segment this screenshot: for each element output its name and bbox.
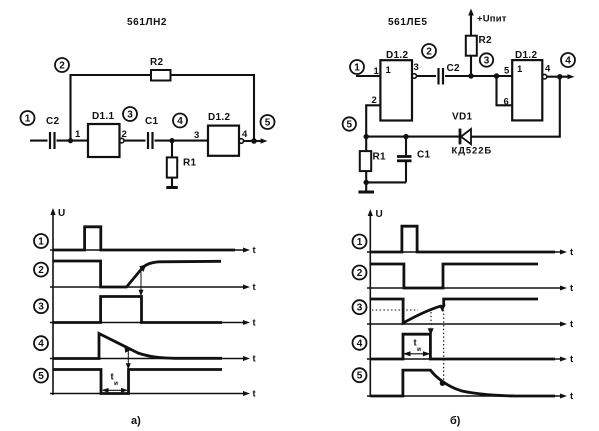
svg-text:D1.2: D1.2 [515, 50, 537, 61]
ground [166, 186, 178, 189]
nor-gate D1.2b [512, 50, 542, 120]
t axis 2 [367, 283, 574, 294]
tи measure arrows [102, 388, 129, 393]
wire R1 to ground [171, 178, 173, 188]
wire pin 2 down [366, 105, 380, 136]
svg-text:D1.2: D1.2 [386, 50, 408, 61]
wire R1 bottom [365, 171, 367, 182]
waveform 3 [53, 297, 222, 323]
svg-text:5: 5 [357, 371, 363, 382]
guide line wf2 to wf3 [139, 272, 144, 297]
U axis [368, 209, 383, 397]
svg-text:1: 1 [374, 66, 380, 77]
junction R2 bottom [468, 73, 473, 78]
svg-text:5: 5 [265, 118, 271, 129]
wire bottom C1 to ground node [366, 181, 406, 183]
junction C1 top [403, 134, 408, 139]
node 4 [561, 53, 575, 67]
svg-text:4: 4 [565, 56, 571, 67]
wire diode to junctions [366, 136, 460, 138]
t axis 3 [367, 319, 574, 330]
wire C2 to gate2 pin 5 [445, 75, 512, 77]
svg-text:4: 4 [242, 129, 248, 140]
svg-text:R1: R1 [373, 152, 387, 163]
U axis [50, 208, 65, 395]
svg-text:3: 3 [414, 62, 419, 73]
resistor R1 [360, 151, 386, 171]
t axis 1 [367, 247, 574, 258]
node 3 [34, 299, 48, 313]
inverter D1.2 [208, 112, 239, 156]
node 1 [350, 60, 364, 74]
svg-text:1: 1 [38, 237, 44, 248]
svg-text:и: и [417, 346, 421, 353]
svg-text:VD1: VD1 [452, 112, 472, 123]
waveform 1 [370, 226, 555, 252]
wire R2 down [470, 56, 472, 76]
node 2 [422, 44, 436, 58]
node 3 [123, 107, 137, 121]
threshold dotted line wf3 [372, 309, 418, 311]
junction ground node [364, 180, 369, 185]
dot on waveform 5 [440, 380, 446, 386]
inverter D1.1 [88, 111, 120, 157]
svg-text:4: 4 [38, 339, 44, 350]
t axis 5 [50, 389, 257, 400]
t axis 1 [50, 245, 257, 256]
inverter bubble D1.2b [542, 74, 547, 79]
wire input to D1.1 [30, 140, 88, 142]
t axis 5 [367, 391, 574, 402]
svg-text:4: 4 [545, 64, 551, 75]
svg-text:5: 5 [38, 371, 44, 382]
svg-text:C1: C1 [417, 150, 431, 161]
capacitor C2 [439, 63, 461, 85]
wire output arrow [547, 74, 575, 79]
node 5 [261, 115, 275, 129]
waveform 5 [53, 370, 222, 394]
waveform 2 [53, 261, 221, 287]
svg-text:5: 5 [504, 66, 510, 77]
wire D1.1 to D1.2 [124, 140, 208, 142]
svg-text:2: 2 [38, 265, 44, 276]
junction node 5 [364, 134, 369, 139]
diode VD1 [452, 112, 493, 157]
wire ground stem [365, 182, 367, 192]
LEFT-TIMING [34, 208, 257, 427]
node 1 [21, 111, 35, 125]
node 4 [34, 336, 48, 350]
inverter bubble D1.1 [119, 138, 124, 143]
svg-text:1: 1 [386, 65, 392, 76]
wire to R1 [171, 141, 173, 158]
svg-text:C1: C1 [145, 116, 159, 127]
svg-text:3: 3 [38, 302, 44, 313]
svg-text:+Uпит: +Uпит [477, 14, 507, 25]
waveform 4 [370, 334, 555, 359]
node 1 [353, 235, 367, 249]
svg-text:и: и [114, 380, 118, 387]
svg-text:3: 3 [127, 110, 133, 121]
junction pin5 branch [494, 73, 499, 78]
RIGHT-TIMING [353, 209, 575, 427]
resistor R2 [150, 57, 171, 81]
svg-text:5: 5 [347, 120, 353, 131]
t axis 4 [367, 354, 574, 365]
svg-text:U: U [58, 208, 66, 219]
wire R2 to output node [171, 75, 255, 141]
resistor R1 [167, 157, 197, 177]
node 4 [353, 336, 367, 350]
inverter bubble D1.2a [412, 74, 417, 79]
resistor R2 [466, 35, 492, 56]
svg-text:3: 3 [357, 303, 363, 314]
node 5 [343, 117, 356, 130]
wire branch to pin 6 [497, 76, 513, 105]
ground [358, 191, 374, 194]
svg-text:4: 4 [177, 116, 183, 127]
svg-text:R2: R2 [479, 35, 493, 46]
svg-text:D1.1: D1.1 [92, 111, 114, 122]
svg-text:3: 3 [484, 56, 490, 67]
svg-text:1: 1 [25, 114, 31, 125]
node 1 [34, 234, 48, 248]
svg-text:561ЛН2: 561ЛН2 [127, 17, 167, 28]
svg-text:R1: R1 [183, 158, 197, 169]
waveform 5 [370, 370, 555, 396]
tи measure arrows [403, 351, 430, 356]
label tи [414, 338, 422, 354]
RIGHT-CIRCUIT [343, 9, 575, 193]
wire C1 vertical [405, 137, 407, 183]
svg-text:6: 6 [504, 97, 509, 108]
junction R1 top [169, 138, 174, 143]
svg-text:2: 2 [59, 61, 65, 72]
marker arrow on waveform 4 [124, 346, 132, 353]
power +Uпит [468, 9, 507, 36]
wire input pin 1 [356, 75, 380, 77]
marker arrow on waveform 2 [139, 264, 146, 272]
junction output node [251, 138, 257, 144]
wire gate1 out to C2 [417, 75, 437, 77]
capacitor C1 [145, 116, 159, 149]
svg-text:C2: C2 [447, 63, 461, 74]
svg-text:2: 2 [426, 47, 432, 58]
node 2 [353, 266, 367, 280]
node 2 [55, 58, 69, 72]
capacitor C2 [46, 116, 60, 149]
svg-text:1: 1 [354, 63, 360, 74]
svg-text:D1.2: D1.2 [208, 112, 230, 123]
waveform 1 [53, 227, 235, 250]
node 2 [34, 263, 48, 277]
marker arrow wf4 fall [428, 328, 434, 335]
svg-text:4: 4 [357, 338, 363, 349]
node 3 [480, 53, 493, 66]
guide line wf4 to wf5 [126, 350, 131, 370]
svg-text:561ЛЕ5: 561ЛЕ5 [388, 17, 428, 28]
svg-text:C2: C2 [46, 116, 60, 127]
t axis 2 [50, 282, 257, 293]
LEFT-CIRCUIT [21, 17, 275, 188]
svg-text:1: 1 [517, 64, 523, 75]
svg-text:1: 1 [357, 237, 363, 248]
wire output down to diode [471, 77, 560, 137]
svg-text:3: 3 [194, 130, 199, 141]
svg-text:2: 2 [357, 268, 363, 279]
inverter bubble D1.2 [239, 139, 244, 144]
svg-text:а): а) [131, 415, 141, 427]
wire output arrow [244, 138, 268, 143]
wire to R1 [365, 137, 367, 152]
capacitor C1 [397, 150, 431, 161]
svg-text:U: U [376, 209, 384, 220]
node 4 [173, 114, 187, 128]
junction output [557, 74, 562, 79]
svg-text:б): б) [450, 415, 461, 427]
marker arrow wf3 jump [439, 305, 446, 312]
node 5 [34, 369, 48, 383]
dotted guide x=443.7 [443, 306, 445, 383]
svg-text:R2: R2 [150, 57, 164, 68]
nor-gate D1.2a [380, 50, 412, 121]
svg-text:КД522Б: КД522Б [452, 146, 493, 157]
waveform 3 [371, 299, 538, 323]
wire feedback up [71, 75, 152, 141]
t axis 3 [50, 318, 257, 329]
node 5 [353, 368, 367, 382]
waveform 2 [370, 264, 538, 288]
label tи [111, 372, 119, 387]
dotted guide x=431 [430, 312, 432, 328]
svg-text:1: 1 [75, 129, 81, 140]
node 3 [353, 300, 367, 314]
t axis 4 [50, 354, 257, 365]
waveform 4 [53, 334, 222, 359]
junction input node [68, 138, 73, 143]
